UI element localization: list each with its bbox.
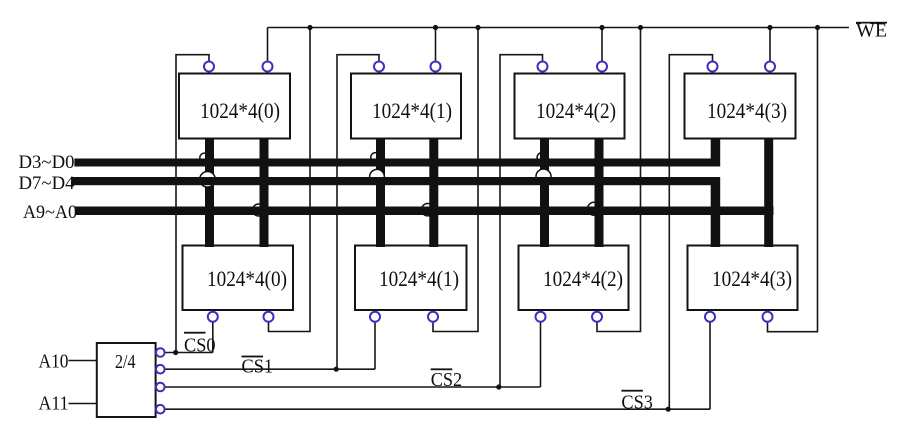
junction dot WE drop U8: [815, 25, 820, 30]
pin circle chip U8 CS: [705, 312, 715, 322]
svg-text:2/4: 2/4: [115, 352, 136, 373]
wire input A11: [69, 403, 97, 405]
overline CS1: [242, 356, 264, 358]
hop arc column2 bar over D7~D4 bus: [536, 169, 551, 184]
pin circle chip U1 CS: [204, 62, 214, 72]
wire WE drop to chip U8: [768, 28, 818, 332]
svg-text:WE: WE: [856, 21, 887, 42]
junction dot WE pin U3: [599, 25, 604, 30]
data pin bar column2 left: [540, 138, 549, 247]
wire CS0 net horizontal: [165, 352, 213, 354]
pin circle chip U2 WE: [431, 62, 441, 72]
data pin bar column3 lower segment: [711, 177, 721, 247]
decoder 2/4 box: [97, 343, 156, 417]
pin circle chip U1 WE: [263, 62, 273, 72]
svg-text:1024*4(2): 1024*4(2): [543, 266, 623, 291]
chip U3 1024*4(2) top row: [515, 74, 625, 139]
pin circle chip U6 CS: [370, 312, 380, 322]
pin circle chip U6 WE: [428, 312, 438, 322]
wire WE drop to chip U5: [269, 28, 311, 332]
overline CS0: [184, 332, 206, 334]
chip U7 1024*4(2) bottom row: [519, 246, 629, 311]
hop arc column2 address bar over A9~A0 bus: [588, 202, 601, 215]
chip U5 1024*4(0) bottom row: [183, 246, 294, 311]
svg-text:1024*4(3): 1024*4(3): [712, 266, 792, 291]
chip U1 1024*4(0) top row: [179, 74, 290, 139]
svg-text:1024*4(0): 1024*4(0): [207, 266, 287, 291]
bus D7~D4: [73, 177, 717, 185]
wire CS2 from chip U3: [500, 55, 543, 387]
pin stub chip U2 WE: [435, 71, 437, 74]
pin circle chip U8 WE: [763, 312, 773, 322]
junction dot CS1 net: [334, 367, 339, 372]
junction dot WE drop U5: [307, 25, 312, 30]
pin circle decoder output CS2: [156, 383, 165, 392]
pin stub chip U1 WE: [267, 71, 269, 74]
overline CS3: [621, 390, 643, 392]
pin circle chip U5 CS: [208, 312, 218, 322]
wire WE drop to chip U6: [433, 28, 478, 332]
svg-text:A10: A10: [39, 352, 69, 373]
pin circle chip U5 WE: [264, 312, 274, 322]
wire CS3 drop from chip U8: [709, 321, 711, 409]
pin circle chip U3 CS: [538, 62, 548, 72]
svg-text:CS1: CS1: [242, 356, 274, 377]
bus A9~A0: [75, 207, 774, 216]
svg-text:CS2: CS2: [431, 370, 463, 391]
wire CS0 drop from chip U5: [212, 321, 214, 352]
wire CS1 from chip U2: [337, 55, 379, 370]
wire WE pin riser chip U3: [601, 28, 603, 63]
svg-text:1024*4(2): 1024*4(2): [536, 98, 616, 123]
junction dot WE pin U2: [433, 25, 438, 30]
bus D3~D0: [74, 159, 720, 167]
hop arc column1 bar over D7~D4 bus: [370, 169, 385, 184]
pin circle chip U7 CS: [536, 312, 546, 322]
pin circle chip U7 WE: [592, 312, 602, 322]
svg-text:CS0: CS0: [184, 336, 216, 357]
data pin bar column3 upper segment: [711, 138, 721, 167]
svg-text:CS3: CS3: [621, 392, 653, 413]
wire CS3 net horizontal: [165, 408, 710, 410]
junction dot WE pin U4: [767, 25, 772, 30]
pin circle decoder output CS3: [156, 405, 165, 414]
wire WE pin riser chip U1: [267, 28, 269, 63]
junction dot WE drop U6: [475, 25, 480, 30]
wire CS2 drop from chip U7: [540, 321, 542, 387]
svg-text:D7~D4: D7~D4: [19, 173, 75, 194]
wire CS1 net horizontal: [165, 368, 375, 370]
address pin bar column3 right: [764, 138, 773, 247]
wire CS2 net horizontal: [165, 386, 541, 388]
pin circle chip U2 CS: [374, 62, 384, 72]
hop arc column0 bar over D7~D4 bus: [200, 172, 216, 188]
address pin bar column2 right: [595, 138, 604, 247]
overline WE: [856, 22, 887, 24]
wire WE pin riser chip U2: [435, 28, 437, 63]
hop arc column2 data bar over D3~D0 bus: [537, 153, 547, 163]
wire WE drop to chip U7: [597, 28, 641, 332]
wire WE pin riser chip U4: [769, 28, 771, 63]
hop arc column1 data bar over D3~D0 bus: [371, 153, 380, 162]
wire CS1 drop from chip U6: [374, 321, 376, 369]
pin stub chip U4 WE: [769, 71, 771, 74]
svg-text:1024*4(1): 1024*4(1): [379, 266, 459, 291]
pin stub chip U1 CS: [208, 71, 210, 74]
wire WE bus top horizontal: [268, 27, 850, 29]
pin stub chip U2 CS: [378, 71, 380, 74]
pin stub chip U4 CS: [712, 71, 714, 74]
pin circle chip U4 WE: [765, 62, 775, 72]
junction dot CS3 net: [666, 407, 671, 412]
pin circle chip U3 WE: [597, 62, 607, 72]
data pin bar column1 left: [376, 138, 385, 247]
pin circle decoder output CS0: [156, 348, 165, 357]
hop arc column1 address bar over A9~A0 bus: [422, 204, 434, 216]
pin stub chip U3 WE: [601, 71, 603, 74]
chip U2 1024*4(1) top row: [351, 74, 461, 139]
pin stub chip U3 CS: [542, 71, 544, 74]
svg-text:A11: A11: [39, 394, 69, 415]
svg-text:1024*4(3): 1024*4(3): [707, 98, 787, 123]
address pin bar column0 right: [260, 138, 269, 247]
hop arc column0 address bar over A9~A0 bus: [253, 204, 265, 216]
address pin bar column1 right: [429, 138, 438, 247]
junction dot CS0 net: [173, 350, 178, 355]
svg-text:1024*4(1): 1024*4(1): [372, 98, 452, 123]
svg-text:A9~A0: A9~A0: [23, 202, 77, 223]
svg-text:D3~D0: D3~D0: [19, 152, 75, 173]
junction dot CS2 net: [496, 384, 501, 389]
wire CS3 from chip U4: [669, 55, 712, 410]
overline CS2: [431, 368, 453, 370]
chip U8 1024*4(3) bottom row: [688, 246, 798, 311]
hop arc column0 data bar over D3~D0 bus: [200, 153, 209, 162]
svg-text:1024*4(0): 1024*4(0): [200, 98, 280, 123]
wire CS0 from chip U1: [176, 55, 209, 353]
chip U4 1024*4(3) top row: [685, 74, 796, 139]
wire input A10: [69, 360, 97, 362]
chip U6 1024*4(1) bottom row: [355, 246, 467, 311]
junction dot WE drop U7: [638, 25, 643, 30]
data pin bar column0 left: [205, 138, 214, 247]
pin circle chip U4 CS: [708, 62, 718, 72]
pin circle decoder output CS1: [156, 365, 165, 374]
